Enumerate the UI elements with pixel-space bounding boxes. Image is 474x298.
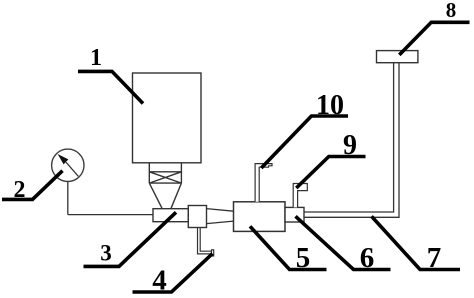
pipe 7 (double line, right and up) — [304, 63, 399, 218]
label 8 — [399, 0, 469, 55]
sensor port 9 on fitting 6 — [293, 184, 307, 208]
hopper 1 — [133, 73, 202, 163]
label 10 — [261, 90, 348, 168]
coupling block between 3 and 5 — [188, 206, 206, 228]
label 2 — [2, 171, 63, 203]
label 7 — [372, 216, 461, 274]
svg-text:1: 1 — [90, 45, 102, 71]
label 6 — [296, 216, 391, 274]
sprayer head 8 — [377, 51, 418, 63]
drain pipe 4 — [198, 228, 214, 256]
svg-text:8: 8 — [446, 0, 457, 22]
wire: inlet pipe from gauge to feeder 3 — [68, 214, 153, 216]
funnel below valve — [150, 183, 182, 208]
pressure gauge 2 — [52, 149, 84, 181]
outlet fitting 6 — [285, 207, 304, 222]
mixing chamber 5 — [234, 202, 286, 232]
rotary valve (X-box) below hopper — [149, 163, 181, 184]
wire: gauge stem — [67, 182, 69, 215]
label 3 — [84, 212, 177, 266]
sensor port 10 on chamber 5 — [255, 164, 272, 202]
label 4 — [133, 254, 213, 297]
label 1 — [78, 45, 143, 104]
feeder body 3 — [153, 209, 188, 222]
label 5 — [250, 226, 327, 274]
svg-text:3: 3 — [100, 241, 112, 266]
label 9 — [296, 130, 365, 188]
converging nozzle into chamber 5 — [207, 209, 234, 224]
